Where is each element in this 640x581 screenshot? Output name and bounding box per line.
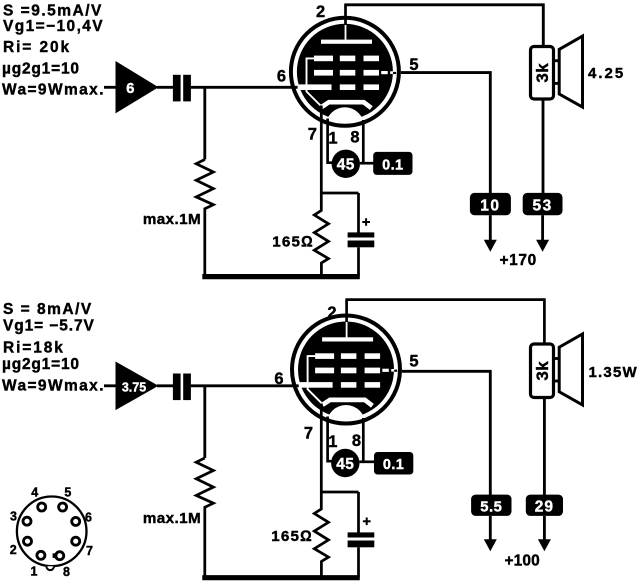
pin 8 heater lead xyxy=(362,120,365,164)
wire grid node down to grid resistor (bottom) xyxy=(203,386,206,458)
svg-text:5: 5 xyxy=(409,353,418,371)
heater voltage circle 45 xyxy=(332,150,360,178)
current box 10 (screen current mA) xyxy=(470,193,511,215)
svg-text:Vg1=−10,4V: Vg1=−10,4V xyxy=(3,18,104,35)
input source triangle 6 xyxy=(116,61,159,113)
svg-text:45: 45 xyxy=(336,456,354,473)
wire heater circle to 0.1 box (bottom) xyxy=(360,460,376,463)
wire to electrolytic capacitor (bottom) xyxy=(357,492,360,533)
wire cathode node to bypass capacitor xyxy=(320,192,358,195)
svg-text:0.1: 0.1 xyxy=(383,457,404,473)
base pin hole 4 xyxy=(38,503,46,511)
wire to electrolytic capacitor xyxy=(357,193,360,233)
pin 1 heater lead (bottom) xyxy=(328,417,332,462)
heater current box 0.1 xyxy=(373,152,412,175)
svg-text:Ri= 20k: Ri= 20k xyxy=(3,39,71,56)
svg-text:S =9.5mA/V: S =9.5mA/V xyxy=(3,2,103,19)
wire triangle to coupling capacitor (bottom) xyxy=(157,384,174,387)
svg-text:29: 29 xyxy=(535,499,554,516)
svg-text:5: 5 xyxy=(409,56,418,74)
pin 1 heater lead xyxy=(328,119,332,163)
wire input to amplifier triangle xyxy=(104,86,116,89)
svg-text:6: 6 xyxy=(85,511,92,525)
svg-text:2: 2 xyxy=(327,304,336,322)
svg-text:Vg1= −5.7V: Vg1= −5.7V xyxy=(3,318,95,335)
arrow to +170 (anode) xyxy=(536,240,549,252)
base pin hole 7 xyxy=(72,537,80,545)
wire heater circle to 0.1 box xyxy=(360,162,374,165)
wire transformer to box 53 xyxy=(542,98,545,194)
svg-text:S = 8mA/V: S = 8mA/V xyxy=(3,301,93,318)
svg-text:1: 1 xyxy=(31,565,38,579)
base pin hole 5 xyxy=(59,503,67,511)
pin 7 cathode lead xyxy=(320,106,323,195)
svg-text:Ri=18k: Ri=18k xyxy=(3,339,65,356)
svg-text:µg2g1=10: µg2g1=10 xyxy=(2,356,80,373)
svg-text:165Ω: 165Ω xyxy=(272,233,314,250)
svg-text:10: 10 xyxy=(480,198,500,215)
svg-text:165Ω: 165Ω xyxy=(271,528,313,545)
svg-text:3k: 3k xyxy=(533,63,552,83)
svg-text:3: 3 xyxy=(10,510,17,524)
wire below box 29 xyxy=(543,516,546,541)
plus polarity mark xyxy=(362,218,370,226)
resistor max.1M (grid leak) xyxy=(196,160,213,275)
svg-text:5.5: 5.5 xyxy=(480,500,502,516)
wire grid node down to grid resistor xyxy=(203,87,206,159)
svg-text:5: 5 xyxy=(64,486,71,500)
wire anode to output transformer xyxy=(344,5,543,48)
svg-text:8: 8 xyxy=(352,432,361,450)
transformer primary 3k (bottom) xyxy=(531,344,554,398)
pin 7 cathode lead (bottom) xyxy=(320,404,323,494)
wire bottom rail xyxy=(202,274,359,279)
svg-text:53: 53 xyxy=(532,198,552,215)
base pin hole 6 xyxy=(72,517,80,525)
svg-text:1.35W: 1.35W xyxy=(589,364,638,381)
resistor 165 ohm cathode (bottom) xyxy=(314,492,328,577)
arrow to +100 (anode) xyxy=(538,539,551,551)
svg-text:45: 45 xyxy=(337,157,355,174)
svg-text:8: 8 xyxy=(350,129,359,147)
pin 2 anode lead xyxy=(344,5,347,25)
svg-text:6: 6 xyxy=(274,370,283,388)
coupling capacitor plates xyxy=(173,75,191,102)
wire cathode node to bypass capacitor (bottom) xyxy=(320,491,358,494)
base locating bump xyxy=(46,566,54,570)
coupling capacitor plates (bottom) xyxy=(173,374,191,401)
svg-text:Wa=9Wmax.: Wa=9Wmax. xyxy=(2,81,105,98)
wire transformer to box 29 xyxy=(543,397,546,496)
svg-text:6: 6 xyxy=(277,68,286,86)
svg-text:µg2g1=10: µg2g1=10 xyxy=(2,61,80,78)
svg-text:2: 2 xyxy=(10,543,17,557)
resistor 165 ohm cathode xyxy=(314,193,328,276)
svg-text:+170: +170 xyxy=(500,252,537,269)
svg-text:7: 7 xyxy=(308,126,317,144)
wire anode to transformer (bottom) xyxy=(345,300,544,345)
arrow to +100 (screen) xyxy=(484,539,497,551)
svg-text:1: 1 xyxy=(328,130,337,148)
svg-text:3k: 3k xyxy=(533,361,552,381)
svg-text:7: 7 xyxy=(304,425,313,443)
tube base outline xyxy=(17,497,87,567)
heater current box 0.1 (bottom) xyxy=(374,452,413,475)
electrolytic bypass capacitor plates (bottom) xyxy=(348,532,375,547)
transformer primary 3k xyxy=(531,47,554,100)
current box 29 (anode current mA) xyxy=(526,495,563,516)
wire capacitor to grid pin 6 (bottom) xyxy=(191,384,302,387)
svg-text:1: 1 xyxy=(328,433,337,451)
wire triangle to coupling capacitor xyxy=(157,86,174,89)
pentode V1 envelope and electrodes xyxy=(291,18,399,146)
current box 53 (anode current mA) xyxy=(523,193,563,215)
svg-text:max.1M: max.1M xyxy=(143,211,201,228)
svg-text:Wa=9Wmax.: Wa=9Wmax. xyxy=(2,377,105,394)
svg-text:4.25: 4.25 xyxy=(588,65,625,82)
wire bottom rail (bottom) xyxy=(202,575,359,580)
base pin hole 3 xyxy=(23,517,31,525)
svg-text:4: 4 xyxy=(31,486,38,500)
wire capacitor to grid pin 6 xyxy=(191,86,301,89)
wire capacitor to bottom rail xyxy=(357,247,360,276)
plus polarity mark (bottom) xyxy=(363,518,371,526)
arrow to +170 (screen) xyxy=(484,240,497,252)
wire screen grid pin 5 to measuring point xyxy=(401,73,490,194)
wire transformer to loudspeaker (bottom) xyxy=(554,359,560,382)
svg-text:8: 8 xyxy=(63,565,70,579)
wire below box 53 xyxy=(541,215,544,241)
resistor max.1M (bottom) xyxy=(196,458,213,576)
wire input to triangle (bottom) xyxy=(104,384,116,387)
svg-text:0.1: 0.1 xyxy=(382,158,403,174)
input source triangle 3.75 xyxy=(116,362,159,411)
pin 8 heater lead (bottom) xyxy=(362,418,365,462)
svg-text:2: 2 xyxy=(316,3,325,21)
wire transformer to loudspeaker xyxy=(554,61,560,84)
svg-text:3.75: 3.75 xyxy=(122,380,146,394)
electrolytic bypass capacitor plates xyxy=(348,232,375,247)
base pin hole 8 xyxy=(53,552,64,560)
current box 5.5 (screen current mA) xyxy=(471,495,511,516)
base pin hole 1 xyxy=(37,551,45,559)
base pin hole 2 xyxy=(24,537,32,545)
svg-text:max.1M: max.1M xyxy=(143,510,201,527)
loudspeaker LS1 xyxy=(559,36,582,107)
wire below box 10 xyxy=(489,215,492,241)
svg-text:+100: +100 xyxy=(505,552,540,569)
wire below box 5.5 xyxy=(489,516,492,541)
svg-text:6: 6 xyxy=(126,80,134,97)
pin 2 anode lead (bottom) xyxy=(345,300,348,322)
pentode V2 envelope and electrodes xyxy=(292,316,400,444)
loudspeaker LS2 xyxy=(559,334,582,405)
svg-text:7: 7 xyxy=(86,544,93,558)
wire screen grid pin 5 to measuring point (bottom) xyxy=(402,371,490,495)
wire capacitor to bottom rail (bottom) xyxy=(357,547,360,577)
heater voltage circle 45 (bottom) xyxy=(331,449,359,477)
